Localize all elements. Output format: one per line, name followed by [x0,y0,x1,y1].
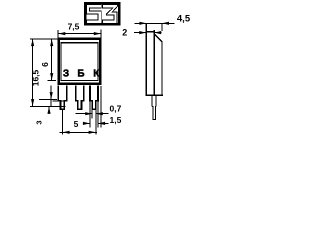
extension line lower reference [30,105,65,107]
svg-text:Б: Б [77,69,84,80]
svg-text:К: К [93,69,100,80]
dimension 2 line [134,32,162,34]
lead 1 (emitter) wide and tip sections [58,86,66,110]
extension line at lead step [53,100,65,102]
side view right edge [161,23,163,95]
svg-text:6: 6 [40,62,50,67]
package body front view outer outline [59,39,101,84]
side view tab top edge [146,31,155,33]
dimension 4,5 arrows [139,22,169,25]
dimension 16,5 arrows [31,39,34,106]
dimension 4,5 line [135,22,175,24]
lead 3 (collector) wide and tip sections [90,86,98,110]
svg-text:16,5: 16,5 [30,69,40,86]
dimension 1,5 line [83,122,108,124]
lead 2 (base) wide and tip sections [76,86,84,110]
side view internal edge [153,30,155,95]
dimension 7,5 extension lines [58,29,101,39]
extension line at lead tips reference [39,98,57,100]
svg-text:4,5: 4,5 [177,14,191,25]
dimension 7,5 line [58,33,101,35]
figure number box 53 [85,3,119,24]
dimension 6 arrows [50,39,53,80]
svg-text:3: 3 [35,120,44,124]
side view bottom edge [146,94,163,96]
svg-text:1,5: 1,5 [110,115,122,125]
dimension 7,5 arrows [58,32,101,35]
side view left edge [145,23,147,95]
dimension 5 left extension line [61,110,63,135]
dimension 1,5 arrows [83,122,105,125]
svg-text:7,5: 7,5 [68,22,80,32]
dimension 16,5 line [32,39,34,106]
side view lead tip section [152,107,156,120]
svg-text:2: 2 [122,28,127,38]
dimension 0,7 arrows [85,112,103,115]
dimension 6 line [51,39,53,80]
svg-text:З: З [63,69,69,80]
svg-text:0,7: 0,7 [110,104,122,114]
dimension 3 lower arrow stub [48,107,50,114]
side view lead upper section [152,95,156,106]
package body front view inner outline [61,43,98,81]
dimension 6 bottom extension line [48,80,57,82]
side view chamfer [155,34,162,41]
dimension 2 arrows [139,31,161,34]
collector lead measurement extension lines [91,110,93,118]
dimension 3 upper arrow line [50,85,52,106]
svg-text:5: 5 [74,119,79,129]
dimension 3 upper arrow [50,92,53,99]
dimension 0,7 line [76,113,109,115]
dimension 5 arrows [63,131,96,134]
dimension 16,5 top extension line [30,38,57,40]
dimension 5 line [59,131,97,133]
